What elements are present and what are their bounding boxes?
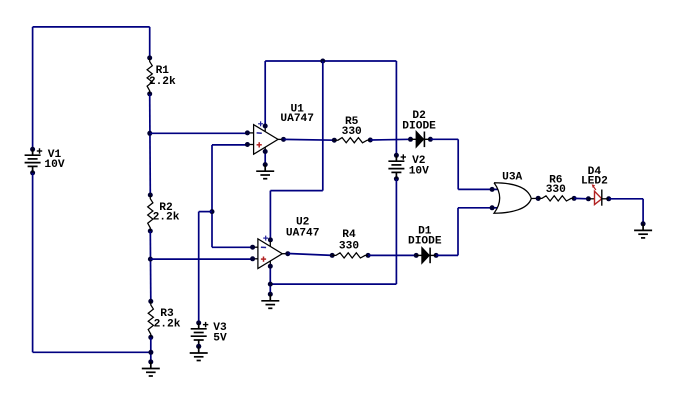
svg-text:UA747: UA747 bbox=[280, 113, 314, 125]
svg-text:UA747: UA747 bbox=[286, 227, 320, 239]
svg-text:5V: 5V bbox=[213, 332, 227, 344]
svg-text:DIODE: DIODE bbox=[408, 235, 442, 247]
svg-text:330: 330 bbox=[339, 241, 359, 253]
svg-text:2.2k: 2.2k bbox=[154, 318, 181, 330]
svg-text:DIODE: DIODE bbox=[402, 120, 436, 132]
svg-text:R4: R4 bbox=[342, 229, 356, 241]
svg-text:U3A: U3A bbox=[502, 171, 522, 183]
svg-text:10V: 10V bbox=[409, 165, 429, 177]
svg-text:330: 330 bbox=[342, 126, 362, 138]
svg-text:2.2k: 2.2k bbox=[149, 76, 176, 88]
svg-text:330: 330 bbox=[546, 184, 566, 196]
svg-text:LED2: LED2 bbox=[581, 175, 608, 187]
svg-text:10V: 10V bbox=[44, 159, 64, 171]
svg-text:2.2k: 2.2k bbox=[153, 211, 180, 223]
